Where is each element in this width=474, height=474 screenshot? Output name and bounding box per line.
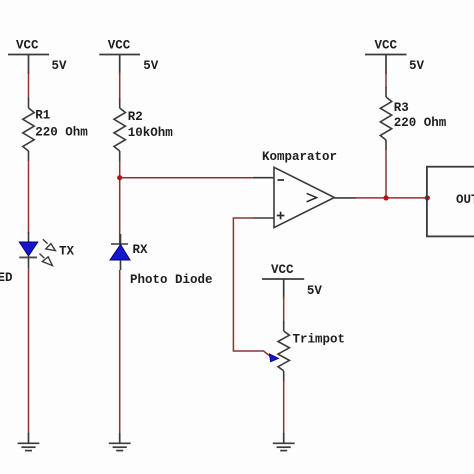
comparator symbol > (307, 193, 317, 201)
ground (photodiode branch) (109, 433, 131, 451)
wire comparator plus input to trimpot wiper (233, 218, 271, 358)
LED D1 (TX) (19, 232, 38, 268)
op-amp U1 comparator (253, 167, 356, 227)
junction node R3/output (383, 195, 388, 200)
LED emission arrow 1 (43, 239, 56, 250)
svg-text:R2: R2 (128, 110, 143, 124)
junction node at OUT box (425, 195, 430, 200)
wire VCC to trimpot (283, 296, 285, 322)
wire comparator output to OUT box (356, 197, 428, 199)
ground (LED branch) (18, 433, 40, 451)
svg-text:220 Ohm: 220 Ohm (394, 116, 447, 130)
wire trimpot to ground (283, 381, 285, 434)
resistor R2 (114, 98, 125, 161)
resistor R1 (23, 98, 34, 161)
wire RX to ground (119, 270, 121, 434)
trimpot RV1 (278, 321, 289, 381)
svg-text:Komparator: Komparator (262, 150, 337, 164)
wire VCC-B to R2 (119, 72, 121, 99)
LED emission arrow 2 (40, 254, 53, 266)
svg-text:5V: 5V (307, 284, 323, 298)
trimpot wiper arrow (269, 354, 278, 362)
junction node R2/comparator minus (117, 175, 122, 180)
svg-text:VCC: VCC (16, 38, 39, 52)
svg-text:LED: LED (0, 271, 13, 285)
svg-text:RX: RX (133, 243, 149, 257)
svg-text:VCC: VCC (108, 38, 131, 52)
svg-text:Photo Diode: Photo Diode (130, 273, 213, 287)
photodiode RX (110, 234, 130, 270)
svg-text:Trimpot: Trimpot (293, 333, 346, 347)
svg-text:5V: 5V (52, 59, 68, 73)
ground (trimpot branch) (273, 433, 295, 451)
power symbol VCC (trimpot branch) (262, 279, 304, 298)
svg-text:VCC: VCC (375, 38, 398, 52)
wire junction to comparator minus input (120, 177, 254, 179)
svg-text:5V: 5V (409, 59, 425, 73)
svg-text:220 Ohm: 220 Ohm (35, 125, 88, 139)
svg-text:R3: R3 (394, 101, 409, 115)
svg-text:5V: 5V (143, 59, 159, 73)
wire R2 to photodiode RX (119, 161, 121, 245)
OUT box (427, 167, 474, 237)
power symbol VCC (column C, R3 branch) (365, 55, 407, 75)
svg-text:TX: TX (59, 244, 75, 258)
wire R1 to LED D1 (28, 161, 30, 233)
wire VCC-C to R3 (385, 72, 387, 88)
power symbol VCC (column A, LED branch) (8, 55, 49, 75)
wire R3 to output node (385, 150, 387, 198)
minus input marker (278, 179, 285, 181)
svg-text:OUT: OUT (456, 193, 474, 207)
svg-text:R1: R1 (35, 109, 50, 123)
resistor R3 (380, 87, 391, 150)
power symbol VCC (column B, photodiode branch) (99, 55, 140, 75)
svg-text:VCC: VCC (271, 263, 294, 277)
wire LED to ground (28, 268, 30, 434)
plus input marker (277, 212, 285, 220)
svg-text:10kOhm: 10kOhm (128, 126, 174, 140)
wire VCC-A to R1 (28, 72, 30, 99)
